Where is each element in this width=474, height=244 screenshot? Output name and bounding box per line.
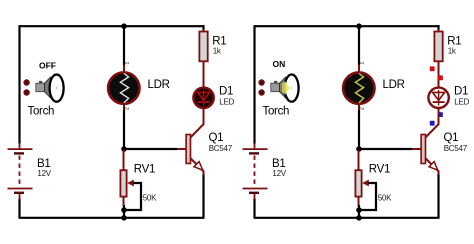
wire: RV1 bottom to rail: [358, 205, 360, 218]
pin: RV1 top lead: [123, 150, 125, 170]
node: top junction (LDR branch): [356, 23, 362, 29]
battery B1 cell1 short plate: [14, 152, 24, 154]
svg-text:D1: D1: [454, 85, 468, 97]
torch switch notch: [39, 81, 42, 83]
pin: R1 top: [438, 29, 440, 33]
potentiometer RV1 body: [120, 170, 126, 196]
wire: battery negative to bottom rail: [253, 199, 255, 219]
wire: base wire to Q1: [359, 148, 412, 150]
wire: emitter down to bottom rail: [437, 174, 439, 218]
wire: wiper tail: [359, 183, 376, 210]
pin: RV1 bottom lead: [123, 197, 125, 206]
battery B1 cell1 long plate: [8, 148, 33, 150]
node: wiper junction: [121, 207, 127, 213]
torch lens ellipse: [50, 75, 64, 102]
wire: battery negative to bottom rail: [18, 199, 20, 219]
torch switch notch: [274, 81, 277, 83]
transistor Q1 base bar: [186, 135, 190, 164]
resistor R1 body: [434, 32, 442, 62]
LDR body: [343, 72, 374, 103]
wire: bottom horizontal rail: [19, 217, 205, 219]
torch lens center mark: [56, 87, 57, 88]
svg-text:RV1: RV1: [134, 164, 155, 176]
LDR body: [108, 72, 139, 103]
LED D1 body: [193, 88, 213, 108]
wire: LDR top branch: [358, 26, 360, 66]
node: wiper junction: [356, 207, 362, 213]
pin: battery negative stub: [19, 194, 21, 200]
wire: base wire to Q1: [124, 148, 177, 150]
pin: R1 bottom to D1: [203, 61, 205, 87]
Q1 emitter diagonal: [190, 158, 204, 172]
svg-text:ON: ON: [273, 59, 286, 69]
svg-text:RV1: RV1: [369, 164, 390, 176]
svg-text:1k: 1k: [213, 47, 222, 56]
state square red lower-right: [438, 75, 443, 80]
svg-text:1: 1: [359, 62, 365, 65]
RV1 wiper arrow: [127, 180, 134, 187]
torch button bottom: [23, 89, 29, 95]
svg-text:D1: D1: [219, 85, 233, 97]
wire: LDR bottom branch to base node: [358, 110, 360, 149]
svg-text:OFF: OFF: [39, 61, 56, 71]
LED D1 cathode bar: [198, 101, 210, 103]
svg-text:2: 2: [124, 107, 130, 110]
LDR zigzag: [120, 74, 128, 103]
potentiometer RV1 body: [355, 170, 361, 196]
wire: RV1 bottom to rail: [123, 205, 125, 218]
node: base junction: [356, 146, 362, 152]
wire: wiper tail: [124, 183, 141, 210]
pin: Q1 base pin: [177, 148, 187, 150]
battery B1 cell1 long plate: [243, 148, 268, 150]
battery B1 cell2 long plate: [8, 188, 33, 190]
battery B1 cell2 short plate: [14, 192, 24, 194]
LED D1 triangle: [433, 92, 445, 100]
svg-text:Q1: Q1: [444, 132, 459, 144]
wire: top horizontal rail: [254, 25, 439, 27]
wire: LDR top branch: [123, 26, 125, 66]
Q1 collector diagonal: [190, 124, 204, 138]
pin: D1 to Q1 collector: [203, 108, 205, 125]
torch button top: [23, 79, 29, 85]
svg-text:12V: 12V: [37, 169, 51, 178]
node: bottom rail junction: [121, 215, 127, 221]
pin: R1 bottom to D1: [438, 61, 440, 87]
pin: LDR bottom: [358, 104, 360, 112]
svg-text:LED: LED: [454, 98, 469, 107]
node: base junction: [121, 146, 127, 152]
state square blue lower-left: [430, 121, 435, 126]
LED D1 vertical stem: [438, 90, 440, 106]
pin: battery negative stub: [254, 194, 256, 200]
svg-text:BC547: BC547: [444, 144, 468, 153]
LED D1 cathode bar: [433, 101, 445, 103]
battery internal dashed link: [254, 156, 256, 188]
svg-text:Torch: Torch: [263, 106, 290, 118]
pin: battery positive stub: [254, 143, 256, 149]
state square red upper-left: [430, 66, 435, 71]
node: top junction (LDR branch): [121, 23, 127, 29]
wire: top horizontal rail: [19, 25, 204, 27]
pin: LDR bottom: [123, 104, 125, 112]
pin: RV1 bottom lead: [358, 197, 360, 206]
resistor R1 body: [199, 32, 207, 62]
pin: emitter upper segment: [203, 171, 205, 175]
svg-text:1k: 1k: [448, 47, 457, 56]
left circuit (torch OFF): [8, 23, 235, 220]
state square blue upper-right: [438, 112, 443, 117]
torch cone: [280, 77, 286, 98]
Q1 emitter diagonal: [425, 158, 439, 172]
pin: LDR top: [358, 65, 360, 74]
wire: bottom horizontal rail: [254, 217, 440, 219]
pin: emitter upper segment: [438, 171, 440, 175]
battery B1 cell1 short plate: [249, 152, 259, 154]
pin: R1 top: [203, 29, 205, 33]
right circuit (torch ON): [243, 23, 470, 220]
svg-text:50K: 50K: [378, 193, 392, 202]
torch button bottom: [258, 89, 264, 95]
Q1 emitter arrowhead: [429, 162, 438, 171]
LDR zigzag (lit): [355, 74, 363, 103]
svg-text:LED: LED: [219, 98, 234, 107]
svg-text:12V: 12V: [272, 169, 286, 178]
svg-text:Torch: Torch: [28, 106, 55, 118]
transistor Q1 base bar: [421, 135, 425, 164]
torch button top: [258, 79, 264, 85]
RV1 wiper arrow: [362, 180, 369, 187]
svg-text:Q1: Q1: [209, 132, 224, 144]
torch glow: [282, 82, 285, 94]
svg-text:BC547: BC547: [209, 144, 233, 153]
wire: emitter down to bottom rail: [202, 174, 204, 218]
svg-text:50K: 50K: [143, 193, 157, 202]
svg-text:1: 1: [124, 62, 130, 65]
torch body: [36, 83, 45, 92]
LED D1 body (lit): [428, 88, 448, 108]
pin: RV1 top lead: [358, 150, 360, 170]
pin: D1 to Q1 collector: [438, 108, 440, 125]
Q1 collector diagonal: [425, 124, 439, 138]
pin: Q1 base pin: [412, 148, 422, 150]
torch body: [271, 83, 280, 92]
wire: LDR bottom branch to base node: [123, 110, 125, 149]
torch lens ellipse: [285, 75, 299, 102]
pin: LDR top: [123, 65, 125, 74]
battery B1 cell2 long plate: [243, 188, 268, 190]
svg-text:2: 2: [359, 107, 365, 110]
battery internal dashed link: [19, 156, 21, 188]
svg-text:LDR: LDR: [383, 79, 405, 91]
wire: left vertical (top wire to battery +): [253, 25, 255, 144]
svg-text:LDR: LDR: [148, 79, 170, 91]
torch lens center mark: [291, 87, 293, 89]
Q1 emitter arrowhead: [194, 162, 203, 171]
LED D1 vertical stem: [203, 90, 205, 106]
pin: battery positive stub: [19, 143, 21, 149]
wire: left vertical (top wire to battery +): [18, 25, 20, 144]
LED D1 triangle: [198, 92, 210, 100]
battery B1 cell2 short plate: [249, 192, 259, 194]
torch cone: [45, 77, 51, 98]
node: bottom rail junction: [356, 215, 362, 221]
